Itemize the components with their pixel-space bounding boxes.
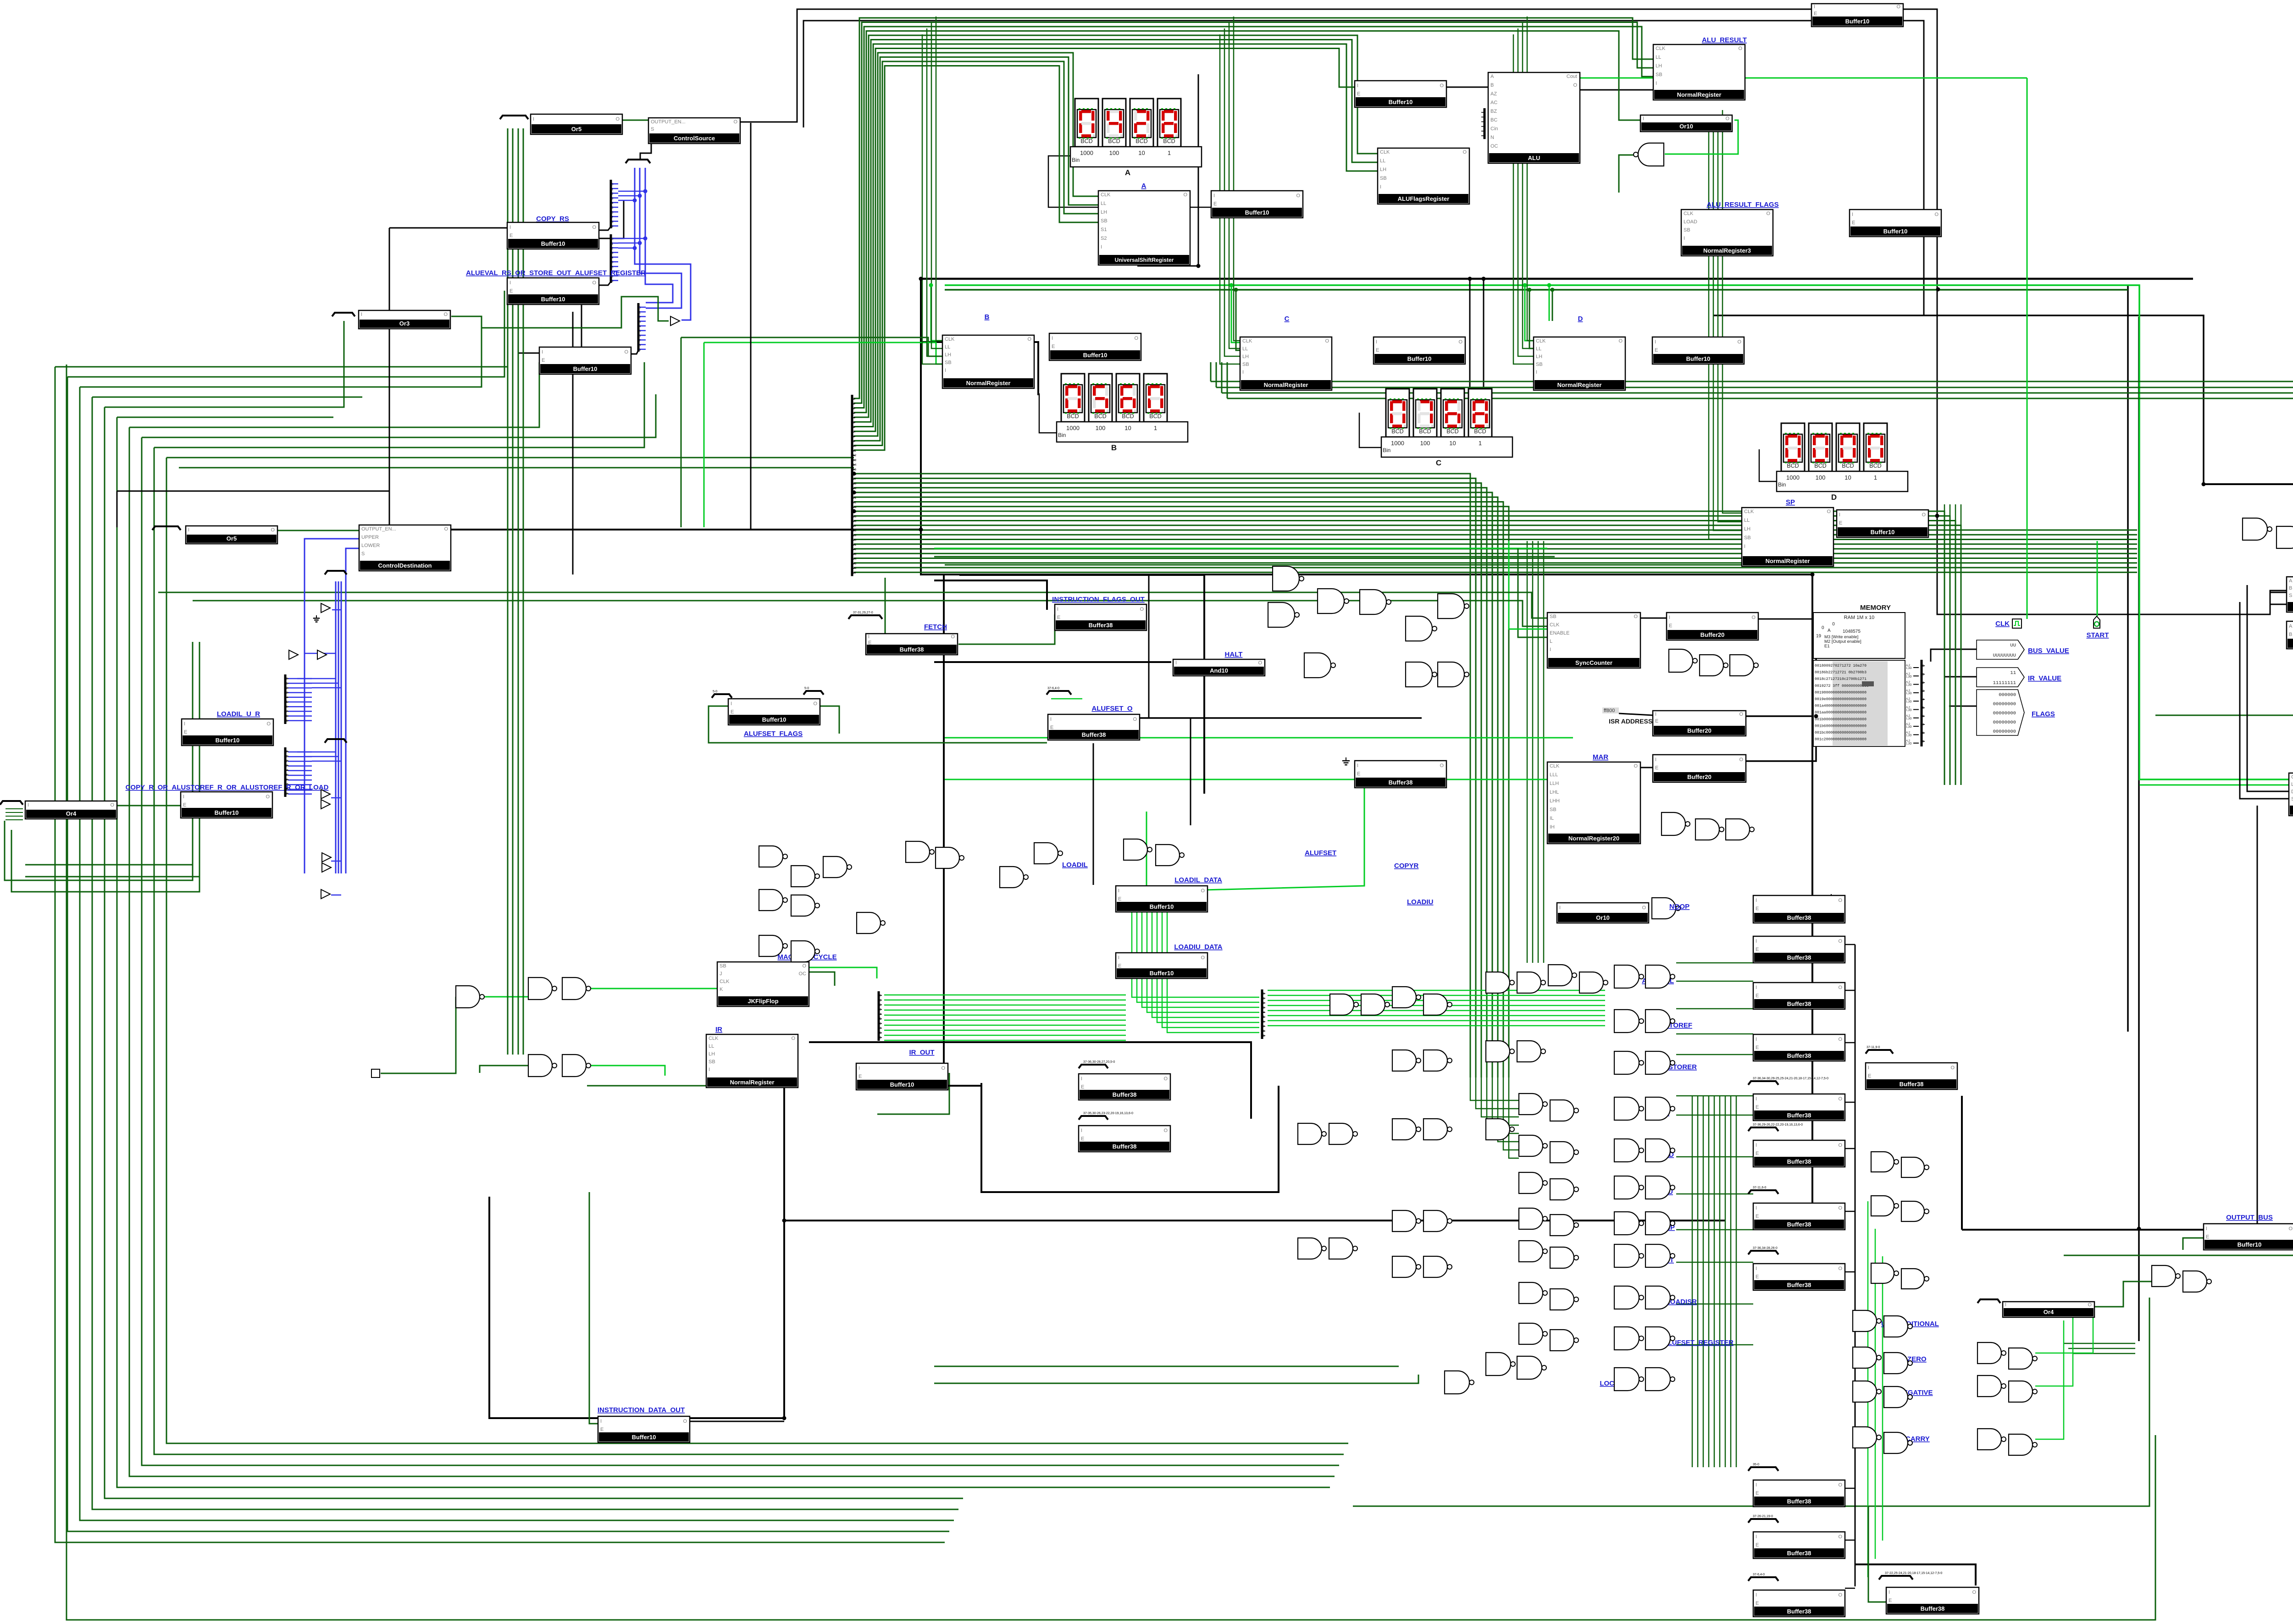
svg-text:LOADIU_DATA: LOADIU_DATA: [1174, 943, 1222, 951]
svg-text:E: E: [868, 640, 871, 646]
svg-text:23: 23: [853, 506, 857, 509]
svg-text:I: I: [1118, 888, 1119, 894]
svg-text:1,3D: 1,3D: [1906, 718, 1912, 720]
svg-text:5: 5: [1263, 1016, 1265, 1019]
svg-text:A: A: [2289, 624, 2293, 629]
svg-text:NormalRegister3: NormalRegister3: [1703, 247, 1751, 254]
svg-text:Buffer38: Buffer38: [1787, 1221, 1811, 1228]
svg-text:I: I: [1559, 905, 1561, 911]
svg-text:O: O: [1838, 1482, 1842, 1488]
svg-text:30: 30: [853, 539, 857, 542]
svg-text:14: 14: [853, 464, 857, 467]
svg-text:7: 7: [286, 710, 288, 713]
svg-text:OUTPUT_EN...: OUTPUT_EN...: [651, 119, 686, 125]
svg-text:UniversalShiftRegister: UniversalShiftRegister: [1115, 257, 1174, 263]
svg-text:E: E: [1081, 1136, 1084, 1142]
svg-text:E: E: [510, 233, 513, 238]
svg-text:Buffer38: Buffer38: [1113, 1091, 1137, 1098]
svg-text:B: B: [1111, 443, 1117, 452]
svg-text:CLK: CLK: [1684, 211, 1694, 216]
svg-text:Or4: Or4: [2044, 1309, 2054, 1315]
svg-text:BCD: BCD: [1135, 138, 1147, 144]
svg-text:BCD: BCD: [1419, 428, 1431, 435]
svg-text:Buffer10: Buffer10: [541, 240, 565, 247]
svg-text:0: 0: [1832, 622, 1835, 627]
svg-text:IR_VALUE: IR_VALUE: [2028, 674, 2061, 682]
svg-text:O: O: [1458, 339, 1462, 345]
svg-text:Bin: Bin: [1058, 432, 1066, 438]
svg-text:LH: LH: [1380, 167, 1386, 172]
svg-text:4: 4: [880, 1013, 881, 1016]
svg-text:37-6,4-0: 37-6,4-0: [1047, 687, 1059, 690]
svg-text:37-11,9-0: 37-11,9-0: [1867, 1046, 1880, 1049]
svg-text:I: I: [1655, 712, 1656, 717]
svg-text:001b6000000000000000000: 001b6000000000000000000: [1815, 724, 1867, 728]
svg-text:6: 6: [1263, 1020, 1265, 1023]
svg-text:O: O: [802, 963, 806, 969]
svg-text:Buffer10: Buffer10: [890, 1081, 914, 1088]
svg-text:E: E: [858, 1074, 862, 1079]
svg-text:9: 9: [853, 440, 855, 443]
svg-text:37-36,29-26,22-22,20-19,16,13,: 37-36,29-26,22-22,20-19,16,13,6-0: [1753, 1123, 1803, 1127]
svg-text:6: 6: [853, 426, 855, 429]
svg-text:Bin: Bin: [1072, 157, 1080, 163]
svg-text:37-35,30-26,23-22,20-19,16,13,: 37-35,30-26,23-22,20-19,16,13,6-0: [1083, 1112, 1133, 1115]
svg-text:A: A: [1141, 182, 1146, 190]
svg-text:E: E: [1118, 963, 1121, 969]
svg-text:O: O: [1838, 898, 1842, 903]
svg-text:4: 4: [1263, 1011, 1265, 1014]
svg-text:O: O: [1634, 614, 1638, 619]
svg-text:33: 33: [853, 552, 857, 556]
svg-text:LL: LL: [1656, 55, 1661, 60]
svg-text:B: B: [1490, 83, 1494, 88]
svg-text:Buffer10: Buffer10: [1083, 352, 1108, 359]
svg-text:Buffer10: Buffer10: [215, 809, 239, 816]
svg-text:LOWER: LOWER: [361, 543, 380, 548]
svg-text:O: O: [110, 802, 114, 808]
svg-text:I: I: [1756, 1482, 1757, 1488]
svg-text:J: J: [720, 971, 722, 977]
svg-text:0: 0: [639, 306, 641, 309]
svg-text:BZ: BZ: [1490, 109, 1497, 114]
svg-text:IR_OUT: IR_OUT: [909, 1049, 934, 1056]
svg-text:10: 10: [1124, 425, 1131, 431]
svg-text:37-22,25-24,21-20,18-17,15-14,: 37-22,25-24,21-20,18-17,15-14,12-7,5-0: [1885, 1572, 1942, 1575]
svg-text:LL: LL: [945, 344, 950, 350]
svg-text:CLK: CLK: [720, 979, 730, 984]
svg-text:10: 10: [853, 445, 857, 448]
svg-text:35: 35: [853, 562, 857, 565]
svg-text:10: 10: [1844, 474, 1851, 481]
svg-text:2: 2: [612, 247, 614, 250]
svg-text:I: I: [1380, 184, 1381, 190]
svg-text:34: 34: [853, 558, 857, 561]
svg-text:1,3D: 1,3D: [1906, 684, 1912, 687]
svg-text:CLK: CLK: [945, 337, 955, 342]
svg-text:Buffer10: Buffer10: [1150, 903, 1174, 910]
svg-text:I: I: [1656, 81, 1657, 86]
svg-text:5: 5: [286, 701, 288, 704]
svg-text:1: 1: [612, 242, 614, 245]
svg-text:S2: S2: [1101, 236, 1107, 241]
svg-text:8: 8: [286, 715, 288, 718]
svg-text:O: O: [1642, 905, 1646, 911]
svg-text:5: 5: [612, 261, 614, 264]
svg-text:1,3D: 1,3D: [1906, 743, 1912, 746]
svg-text:O: O: [1201, 955, 1205, 961]
svg-text:COPYR: COPYR: [1394, 862, 1419, 870]
svg-text:K: K: [720, 987, 723, 992]
svg-text:BCD: BCD: [1391, 428, 1403, 435]
svg-text:O: O: [2288, 1226, 2293, 1232]
svg-text:SB: SB: [709, 1059, 715, 1065]
svg-text:1: 1: [880, 999, 881, 1002]
svg-text:I: I: [1756, 1534, 1757, 1540]
svg-text:2: 2: [1484, 121, 1485, 124]
svg-text:5-0: 5-0: [713, 690, 717, 693]
svg-text:CLK: CLK: [1550, 622, 1560, 628]
svg-text:SB: SB: [1744, 535, 1751, 541]
svg-text:2: 2: [286, 687, 288, 690]
svg-text:UU: UU: [2010, 643, 2016, 648]
svg-text:I: I: [1756, 1205, 1757, 1211]
svg-text:6: 6: [880, 1022, 881, 1025]
svg-text:Buffer10: Buffer10: [762, 716, 786, 723]
svg-text:UPPER: UPPER: [361, 535, 379, 540]
svg-text:001aa000000000000000000: 001aa000000000000000000: [1815, 711, 1867, 715]
svg-text:LOADIU: LOADIU: [1407, 898, 1434, 906]
svg-text:5: 5: [612, 206, 614, 210]
svg-text:I: I: [2005, 1302, 2006, 1308]
svg-text:Buffer38: Buffer38: [1787, 1498, 1811, 1505]
svg-text:0018c27127210c2700b1271: 0018c27127210c2700b1271: [1815, 677, 1867, 681]
svg-text:ALUFSET_O: ALUFSET_O: [1091, 705, 1133, 713]
svg-text:1: 1: [286, 755, 288, 758]
svg-text:BCD: BCD: [1869, 463, 1881, 469]
svg-text:O: O: [1258, 660, 1262, 666]
svg-text:I: I: [1756, 1266, 1757, 1271]
svg-text:O: O: [1163, 1076, 1168, 1082]
svg-text:O: O: [951, 634, 955, 640]
svg-text:ALU: ALU: [1528, 155, 1540, 161]
svg-text:E: E: [542, 358, 545, 363]
svg-text:0: 0: [1484, 111, 1485, 114]
svg-text:7: 7: [612, 216, 614, 219]
svg-text:E: E: [1756, 1214, 1759, 1219]
svg-text:O: O: [443, 312, 448, 317]
svg-text:25: 25: [853, 515, 857, 518]
svg-text:I: I: [1081, 1128, 1082, 1133]
svg-text:Or5: Or5: [227, 535, 237, 542]
svg-text:Buffer38: Buffer38: [1787, 1608, 1811, 1615]
svg-text:SP: SP: [1786, 498, 1795, 506]
svg-text:I: I: [1118, 955, 1119, 961]
svg-text:4: 4: [639, 325, 641, 328]
svg-text:BCD: BCD: [1814, 463, 1826, 469]
svg-text:ALU_RESULT_FLAGS: ALU_RESULT_FLAGS: [1706, 201, 1778, 209]
svg-text:00186b22712721 0b2700b3: 00186b22712721 0b2700b3: [1815, 670, 1867, 675]
svg-text:Or4: Or4: [66, 810, 77, 817]
svg-text:O: O: [1896, 4, 1900, 10]
svg-text:100: 100: [1816, 474, 1826, 481]
svg-text:BCD: BCD: [1149, 413, 1161, 420]
svg-text:I: I: [945, 368, 946, 373]
svg-text:O: O: [1738, 46, 1742, 51]
svg-text:E: E: [1213, 201, 1217, 207]
svg-text:9: 9: [286, 719, 288, 723]
svg-text:HALT: HALT: [1225, 651, 1243, 658]
svg-text:0: 0: [853, 398, 855, 401]
svg-text:I: I: [510, 225, 511, 230]
svg-text:LH: LH: [945, 352, 951, 358]
svg-text:B: B: [985, 313, 990, 321]
svg-text:O: O: [1163, 1128, 1168, 1133]
svg-text:O: O: [1134, 336, 1138, 341]
svg-text:O: O: [1838, 985, 1842, 990]
svg-text:I: I: [1242, 370, 1244, 375]
svg-text:37-36,30-28,27,20,5-0: 37-36,30-28,27,20,5-0: [1083, 1061, 1115, 1064]
svg-text:Buffer10: Buffer10: [541, 296, 565, 303]
svg-text:3: 3: [853, 412, 855, 415]
svg-text:E: E: [1376, 348, 1379, 353]
svg-text:1: 1: [1922, 673, 1924, 676]
svg-text:BCD: BCD: [1787, 463, 1799, 469]
svg-text:CLK: CLK: [709, 1036, 719, 1041]
svg-text:C: C: [1436, 458, 1441, 467]
svg-text:Buffer20: Buffer20: [1700, 631, 1725, 638]
svg-text:1,3D: 1,3D: [1906, 701, 1912, 703]
svg-text:E: E: [1868, 1073, 1871, 1079]
svg-text:4: 4: [286, 769, 288, 772]
svg-text:O: O: [1133, 717, 1137, 722]
svg-text:E: E: [1655, 348, 1658, 353]
svg-text:Or5: Or5: [571, 126, 582, 133]
svg-text:LH: LH: [1242, 354, 1249, 359]
svg-text:6: 6: [286, 778, 288, 781]
svg-text:E: E: [1756, 1542, 1759, 1548]
svg-text:LL: LL: [1536, 346, 1541, 352]
svg-text:NormalRegister20: NormalRegister20: [1568, 835, 1619, 842]
svg-text:E: E: [1756, 1151, 1759, 1156]
svg-text:Buffer38: Buffer38: [900, 646, 924, 653]
svg-text:LH: LH: [1656, 63, 1662, 69]
svg-text:12: 12: [853, 454, 857, 457]
svg-text:I: I: [1536, 370, 1537, 375]
svg-text:B: B: [2289, 586, 2292, 591]
svg-text:Buffer10: Buffer10: [632, 1434, 656, 1441]
svg-text:E: E: [1756, 1601, 1759, 1606]
svg-text:O: O: [1573, 83, 1577, 88]
svg-text:E: E: [1756, 947, 1759, 952]
svg-text:1000: 1000: [1080, 149, 1093, 156]
svg-text:O: O: [1838, 1266, 1842, 1271]
svg-text:E: E: [510, 288, 513, 294]
svg-text:ENABLE: ENABLE: [1550, 630, 1569, 636]
svg-text:I: I: [510, 280, 511, 286]
svg-text:Buffer38: Buffer38: [1787, 1112, 1811, 1119]
svg-text:Or10: Or10: [1679, 123, 1693, 130]
svg-text:I: I: [1655, 757, 1656, 762]
svg-text:C: C: [1285, 315, 1290, 323]
svg-text:Buffer20: Buffer20: [1687, 773, 1711, 780]
svg-text:11111111: 11111111: [1993, 680, 2016, 686]
svg-text:OC: OC: [799, 971, 807, 977]
svg-text:S: S: [2289, 593, 2292, 598]
svg-text:9: 9: [612, 225, 614, 228]
svg-text:O: O: [1751, 615, 1756, 620]
svg-text:ALU_RESULT: ALU_RESULT: [1702, 36, 1747, 44]
svg-text:3: 3: [286, 691, 288, 695]
svg-text:I: I: [1684, 236, 1685, 241]
svg-text:I: I: [1376, 339, 1377, 345]
svg-text:Buffer38: Buffer38: [1787, 1052, 1811, 1059]
svg-text:6: 6: [639, 334, 641, 337]
svg-text:AC: AC: [1490, 100, 1497, 105]
svg-text:I: I: [2206, 1226, 2207, 1232]
svg-text:I: I: [1213, 193, 1215, 199]
svg-text:I: I: [1101, 244, 1102, 250]
svg-text:I: I: [1655, 339, 1656, 345]
svg-text:4: 4: [1484, 130, 1485, 133]
svg-text:000000: 000000: [1999, 692, 2016, 698]
svg-text:I: I: [1052, 336, 1053, 341]
svg-text:9: 9: [1263, 1034, 1265, 1038]
svg-text:3: 3: [1263, 1006, 1265, 1010]
svg-text:B: B: [2289, 632, 2292, 637]
svg-text:SB: SB: [1550, 807, 1556, 812]
svg-text:7: 7: [1263, 1025, 1265, 1028]
svg-text:I: I: [1550, 647, 1551, 652]
svg-text:2: 2: [880, 1004, 881, 1007]
svg-text:BCD: BCD: [1474, 428, 1486, 435]
svg-text:Bin: Bin: [1778, 481, 1786, 488]
svg-text:BCD: BCD: [1446, 428, 1458, 435]
svg-text:8: 8: [639, 344, 641, 347]
svg-text:Buffer10: Buffer10: [1389, 99, 1413, 105]
svg-text:E: E: [1756, 993, 1759, 999]
svg-text:E: E: [1839, 520, 1842, 526]
svg-text:N: N: [1490, 135, 1494, 140]
svg-text:1: 1: [1168, 149, 1171, 156]
svg-text:I: I: [1839, 512, 1840, 518]
svg-text:5-0: 5-0: [804, 687, 809, 690]
svg-text:BCD: BCD: [1122, 413, 1134, 420]
svg-text:1: 1: [1263, 997, 1265, 1000]
svg-text:0: 0: [286, 750, 288, 753]
svg-text:6: 6: [612, 265, 614, 269]
svg-text:3: 3: [639, 320, 641, 324]
svg-text:O: O: [1934, 212, 1939, 217]
svg-text:37: 37: [853, 571, 857, 574]
svg-text:NormalRegister: NormalRegister: [1677, 91, 1722, 98]
svg-text:ISR ADDRESS: ISR ADDRESS: [1609, 718, 1652, 725]
svg-text:O: O: [1838, 1143, 1842, 1148]
svg-text:4: 4: [286, 696, 288, 699]
svg-text:O: O: [1838, 1592, 1842, 1598]
svg-text:NOOP: NOOP: [1669, 903, 1689, 911]
svg-text:36: 36: [853, 567, 857, 570]
svg-text:Buffer38: Buffer38: [1787, 954, 1811, 961]
svg-text:O: O: [1462, 149, 1467, 155]
svg-text:1,3D: 1,3D: [1906, 709, 1912, 712]
svg-text:O: O: [624, 349, 628, 355]
svg-text:1,3D: 1,3D: [1906, 692, 1912, 695]
svg-text:O: O: [1950, 1065, 1955, 1071]
svg-text:17: 17: [853, 477, 857, 481]
svg-text:LHH: LHH: [1550, 798, 1560, 804]
svg-text:Or3: Or3: [399, 320, 410, 327]
svg-text:O: O: [1296, 193, 1300, 199]
svg-text:18: 18: [853, 482, 857, 486]
svg-text:LOAD: LOAD: [1684, 219, 1697, 225]
svg-text:S: S: [361, 551, 365, 557]
svg-text:LH: LH: [1101, 210, 1107, 215]
svg-text:BCD: BCD: [1067, 413, 1079, 420]
svg-text:O: O: [1183, 192, 1187, 198]
svg-text:O: O: [1440, 763, 1444, 768]
svg-text:Buffer38: Buffer38: [1787, 914, 1811, 921]
svg-text:8: 8: [286, 788, 288, 791]
svg-text:4: 4: [612, 202, 614, 205]
svg-text:1,3D: 1,3D: [1906, 726, 1912, 729]
svg-text:4: 4: [1922, 698, 1924, 701]
svg-text:SyncCounter: SyncCounter: [1575, 659, 1612, 666]
svg-text:3: 3: [880, 1008, 881, 1011]
svg-text:O: O: [266, 794, 270, 800]
svg-text:E: E: [1756, 1045, 1759, 1050]
svg-text:Buffer38: Buffer38: [1082, 731, 1106, 738]
svg-text:NormalRegister: NormalRegister: [966, 380, 1011, 387]
svg-text:8: 8: [1922, 732, 1924, 735]
svg-text:BCD: BCD: [1080, 138, 1092, 144]
svg-text:O: O: [615, 116, 620, 122]
svg-text:CLK: CLK: [1744, 509, 1754, 514]
svg-text:O: O: [1739, 757, 1743, 762]
svg-text:3: 3: [1484, 125, 1485, 128]
svg-text:O: O: [813, 701, 817, 707]
svg-text:CLK: CLK: [1101, 192, 1111, 198]
svg-text:IR: IR: [715, 1026, 722, 1033]
svg-text:26: 26: [853, 520, 857, 523]
svg-text:I: I: [709, 1067, 710, 1072]
svg-text:E: E: [1357, 91, 1360, 97]
svg-text:2: 2: [853, 407, 855, 410]
svg-text:LOAD: LOAD: [2291, 782, 2293, 787]
svg-text:E: E: [1357, 771, 1360, 777]
svg-text:E: E: [1756, 1491, 1759, 1496]
svg-text:00000000: 00000000: [1993, 702, 2016, 707]
svg-text:1: 1: [639, 311, 641, 314]
svg-text:2: 2: [612, 193, 614, 196]
svg-text:E: E: [184, 729, 187, 735]
svg-text:4: 4: [612, 256, 614, 260]
svg-text:SB: SB: [1684, 227, 1690, 233]
svg-text:I: I: [1175, 660, 1177, 666]
svg-text:15: 15: [853, 468, 857, 471]
svg-text:CLK: CLK: [1536, 338, 1546, 344]
svg-text:ControlSource: ControlSource: [674, 135, 715, 142]
svg-text:I: I: [533, 116, 534, 122]
svg-text:O: O: [733, 119, 737, 125]
svg-text:SB: SB: [1380, 176, 1387, 181]
svg-text:E: E: [2206, 1234, 2209, 1240]
svg-text:BCD: BCD: [1094, 413, 1106, 420]
svg-text:LL: LL: [1744, 518, 1750, 523]
svg-text:LL: LL: [1242, 346, 1248, 352]
svg-text:35-0: 35-0: [1753, 1463, 1759, 1466]
svg-text:IH: IH: [1550, 824, 1555, 830]
